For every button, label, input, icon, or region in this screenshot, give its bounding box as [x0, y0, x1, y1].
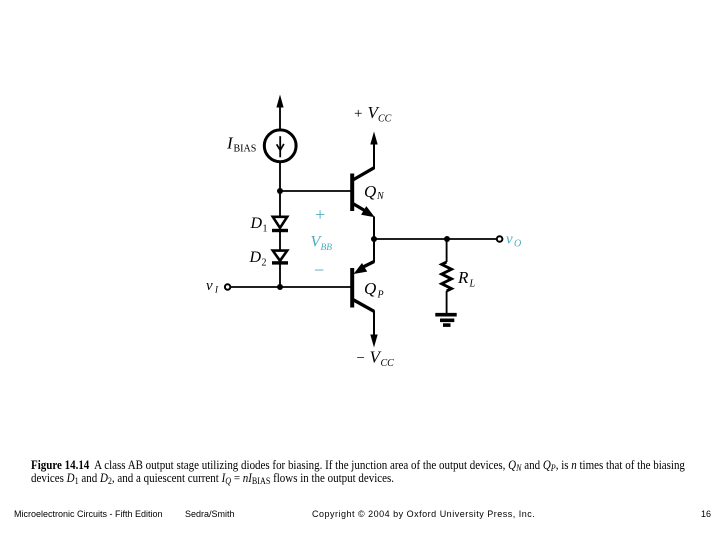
footer right	[701, 509, 711, 519]
svg-text:D: D	[249, 249, 262, 266]
label Q_N	[364, 182, 385, 202]
label +V_CC	[354, 103, 392, 125]
label D2	[249, 249, 267, 269]
svg-text:CC: CC	[378, 114, 392, 125]
svg-text:BB: BB	[321, 243, 333, 253]
transistor Q_N	[352, 132, 378, 240]
label Q_P	[364, 279, 384, 301]
svg-text:CC: CC	[381, 358, 395, 369]
svg-text:+: +	[354, 106, 362, 122]
diode D2	[272, 251, 288, 263]
wire: resistor to ground	[446, 291, 448, 313]
label R_L	[457, 268, 476, 290]
diode D1	[272, 217, 288, 231]
wire: v_I terminal to Q_P base	[231, 286, 351, 288]
svg-text:Q: Q	[364, 182, 376, 201]
svg-text:P: P	[377, 290, 384, 301]
svg-text:N: N	[376, 191, 385, 202]
input terminal v_I	[225, 284, 230, 289]
label I_BIAS	[226, 134, 256, 155]
figure caption	[31, 459, 685, 486]
label V_BB	[311, 234, 333, 254]
svg-text:v: v	[206, 278, 213, 294]
svg-text:L: L	[469, 279, 476, 290]
wire: current source to node A	[279, 162, 281, 192]
output terminal v_O	[497, 236, 503, 242]
svg-text:Q: Q	[364, 279, 376, 298]
wire: output node to v_O terminal	[374, 238, 496, 240]
ground	[435, 315, 456, 325]
resistor R_L	[442, 262, 452, 291]
svg-text:BIAS: BIAS	[234, 144, 257, 155]
label v_I	[206, 278, 219, 295]
svg-text:D: D	[250, 215, 263, 232]
footer left	[14, 509, 163, 519]
wire: D2 to node B	[279, 263, 281, 287]
label -V_CC	[357, 348, 395, 370]
svg-text:−: −	[357, 351, 365, 367]
svg-text:O: O	[514, 239, 521, 250]
svg-text:I: I	[214, 285, 219, 295]
node A (top of diode chain)	[277, 188, 283, 194]
power arrow up (supply above current source)	[276, 95, 283, 130]
node C (output node)	[371, 236, 377, 242]
wire: node D to resistor R_L	[446, 239, 448, 262]
node D (R_L tap)	[444, 236, 450, 242]
svg-text:+: +	[315, 205, 325, 225]
svg-text:−: −	[314, 260, 324, 280]
label v_O	[506, 232, 521, 250]
svg-text:1: 1	[263, 224, 268, 235]
wire: node A to diode D1	[279, 191, 281, 217]
footer left 2	[185, 509, 235, 519]
transistor Q_P	[352, 239, 378, 348]
label D1	[250, 215, 268, 235]
wire: D1 to D2	[279, 231, 281, 252]
svg-text:2: 2	[262, 258, 267, 269]
node B (input node)	[277, 284, 283, 290]
wire: node A to Q_N base	[280, 190, 351, 192]
svg-text:R: R	[457, 268, 469, 287]
footer center	[312, 509, 535, 519]
current source I_BIAS	[264, 130, 296, 162]
svg-text:v: v	[506, 232, 513, 248]
